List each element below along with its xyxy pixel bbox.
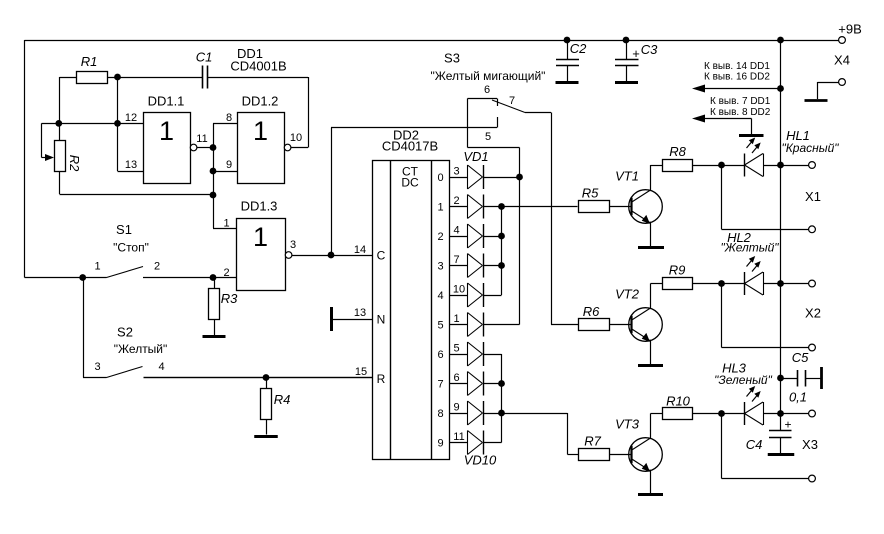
svg-text:DC: DC <box>401 176 419 190</box>
svg-text:X4: X4 <box>834 53 850 68</box>
svg-text:12: 12 <box>125 112 137 124</box>
svg-text:R1: R1 <box>81 54 98 69</box>
svg-text:1: 1 <box>159 116 174 146</box>
svg-text:9: 9 <box>453 402 459 414</box>
svg-text:C: C <box>377 249 386 263</box>
svg-text:1: 1 <box>453 313 459 325</box>
svg-text:R4: R4 <box>274 392 291 407</box>
svg-text:6: 6 <box>484 84 490 96</box>
svg-text:DD1.1: DD1.1 <box>148 94 185 109</box>
svg-text:0,1: 0,1 <box>789 390 807 405</box>
svg-text:5: 5 <box>485 131 491 143</box>
svg-text:3: 3 <box>290 239 296 251</box>
svg-text:4: 4 <box>453 225 459 237</box>
svg-text:8: 8 <box>437 408 443 420</box>
svg-text:C2: C2 <box>570 41 587 56</box>
svg-text:"Зеленый": "Зеленый" <box>714 373 772 387</box>
svg-text:14: 14 <box>354 244 366 256</box>
svg-text:1: 1 <box>253 116 268 146</box>
svg-text:10: 10 <box>290 132 302 144</box>
svg-text:R8: R8 <box>669 144 686 159</box>
svg-text:9: 9 <box>437 438 443 450</box>
svg-text:+9В: +9В <box>838 22 862 37</box>
svg-text:R6: R6 <box>583 304 600 319</box>
svg-text:6: 6 <box>453 372 459 384</box>
svg-text:5: 5 <box>453 343 459 355</box>
svg-text:"Желтый": "Желтый" <box>720 241 779 255</box>
svg-text:2: 2 <box>437 231 443 243</box>
svg-text:11: 11 <box>196 133 207 145</box>
svg-text:VD10: VD10 <box>464 453 497 468</box>
svg-text:7: 7 <box>437 379 443 391</box>
svg-text:7: 7 <box>453 254 459 266</box>
svg-text:4: 4 <box>158 361 164 373</box>
svg-text:CD4001B: CD4001B <box>230 59 286 74</box>
svg-text:X2: X2 <box>805 306 821 321</box>
svg-text:2: 2 <box>453 195 459 207</box>
svg-text:"Желтый": "Желтый" <box>114 342 168 356</box>
svg-text:CD4017B: CD4017B <box>382 139 438 154</box>
svg-text:DD1.3: DD1.3 <box>241 199 278 214</box>
svg-text:9: 9 <box>226 159 232 171</box>
svg-text:C3: C3 <box>641 42 658 57</box>
svg-text:3: 3 <box>453 166 459 178</box>
svg-text:S1: S1 <box>116 222 132 237</box>
svg-text:R10: R10 <box>666 394 691 409</box>
svg-text:К выв. 7 DD1: К выв. 7 DD1 <box>710 96 771 107</box>
svg-text:0: 0 <box>437 172 443 184</box>
svg-text:+: + <box>632 46 640 61</box>
svg-text:3: 3 <box>437 261 443 273</box>
svg-text:R5: R5 <box>582 186 599 201</box>
svg-text:VT1: VT1 <box>615 169 639 184</box>
svg-text:"Стоп": "Стоп" <box>113 241 149 255</box>
svg-text:S3: S3 <box>444 51 460 66</box>
svg-text:6: 6 <box>437 349 443 361</box>
svg-text:2: 2 <box>154 261 160 273</box>
svg-text:10: 10 <box>453 284 465 296</box>
svg-text:C4: C4 <box>746 437 763 452</box>
svg-text:1: 1 <box>253 222 268 252</box>
svg-text:13: 13 <box>354 307 366 319</box>
svg-text:"Желтый мигающий": "Желтый мигающий" <box>431 69 546 83</box>
svg-text:DD1.2: DD1.2 <box>242 94 279 109</box>
svg-text:1: 1 <box>223 218 229 230</box>
svg-text:R2: R2 <box>67 155 82 172</box>
svg-text:1: 1 <box>94 261 100 273</box>
svg-text:15: 15 <box>355 366 367 378</box>
svg-text:VT3: VT3 <box>615 417 640 432</box>
svg-text:R3: R3 <box>221 291 238 306</box>
svg-text:R: R <box>377 372 386 386</box>
svg-text:X1: X1 <box>805 189 821 204</box>
svg-text:4: 4 <box>437 290 443 302</box>
svg-text:7: 7 <box>509 95 515 107</box>
svg-text:11: 11 <box>453 431 464 443</box>
svg-text:+: + <box>784 418 791 432</box>
svg-text:VT2: VT2 <box>615 287 640 302</box>
svg-text:13: 13 <box>125 159 137 171</box>
svg-text:К выв. 14 DD1: К выв. 14 DD1 <box>704 61 770 72</box>
svg-text:VD1: VD1 <box>463 149 488 164</box>
svg-text:N: N <box>377 313 386 327</box>
svg-text:R9: R9 <box>669 263 686 278</box>
svg-text:8: 8 <box>226 112 232 124</box>
svg-text:C5: C5 <box>792 350 809 365</box>
svg-text:5: 5 <box>437 320 443 332</box>
svg-text:3: 3 <box>94 361 100 373</box>
svg-text:К выв. 16 DD2: К выв. 16 DD2 <box>704 72 770 83</box>
svg-text:"Красный": "Красный" <box>781 141 839 155</box>
svg-text:К выв. 8 DD2: К выв. 8 DD2 <box>710 107 771 118</box>
svg-text:S2: S2 <box>117 325 133 340</box>
svg-text:1: 1 <box>437 202 443 214</box>
svg-text:X3: X3 <box>802 437 818 452</box>
svg-text:C1: C1 <box>196 50 213 65</box>
svg-text:R7: R7 <box>584 434 601 449</box>
